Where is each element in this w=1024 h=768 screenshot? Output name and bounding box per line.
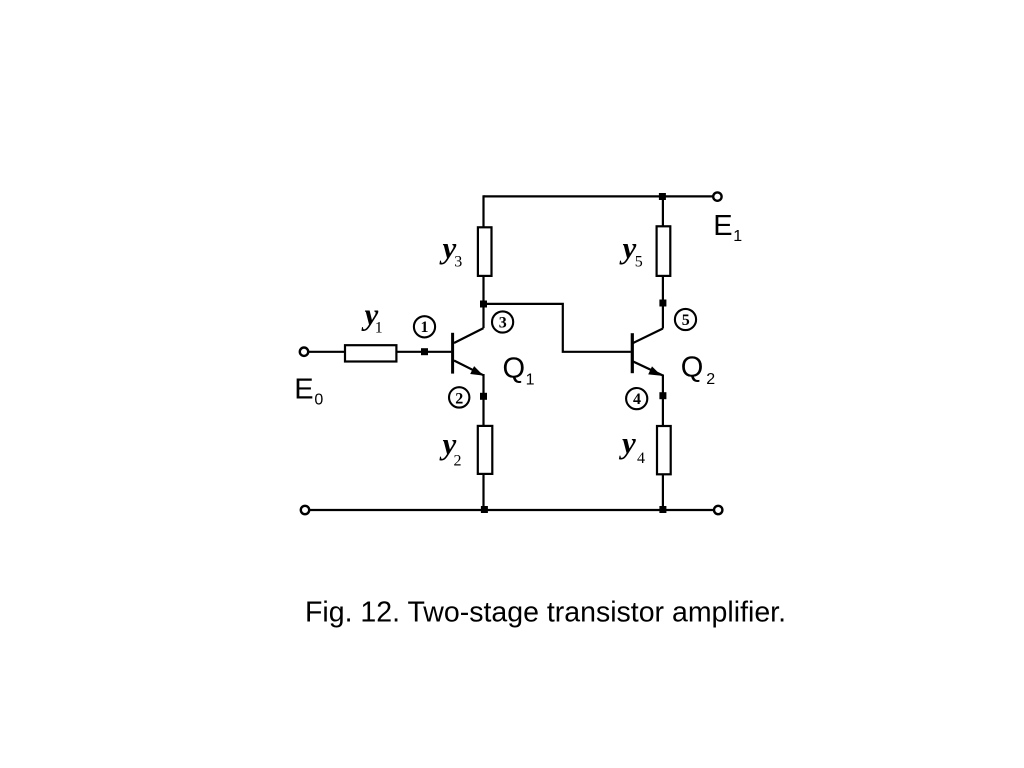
svg-text:y: y bbox=[618, 425, 636, 460]
svg-text:2: 2 bbox=[454, 453, 462, 470]
svg-text:2: 2 bbox=[455, 390, 463, 407]
svg-text:2: 2 bbox=[706, 371, 715, 388]
svg-text:1: 1 bbox=[375, 320, 383, 337]
svg-text:Fig. 12. Two-stage transistor: Fig. 12. Two-stage transistor amplifier. bbox=[305, 597, 786, 629]
svg-text:Q: Q bbox=[503, 353, 526, 385]
svg-text:1: 1 bbox=[526, 372, 535, 389]
svg-text:3: 3 bbox=[499, 314, 507, 331]
svg-text:1: 1 bbox=[733, 228, 742, 245]
svg-text:E: E bbox=[294, 374, 313, 406]
svg-text:3: 3 bbox=[454, 253, 462, 270]
svg-text:y: y bbox=[619, 230, 637, 265]
svg-text:1: 1 bbox=[421, 319, 429, 336]
svg-text:4: 4 bbox=[637, 450, 645, 467]
svg-text:0: 0 bbox=[314, 392, 323, 409]
svg-text:4: 4 bbox=[633, 391, 641, 408]
svg-text:5: 5 bbox=[635, 253, 643, 270]
svg-text:5: 5 bbox=[682, 312, 690, 329]
svg-text:E: E bbox=[713, 210, 732, 242]
svg-text:Q: Q bbox=[681, 352, 704, 384]
